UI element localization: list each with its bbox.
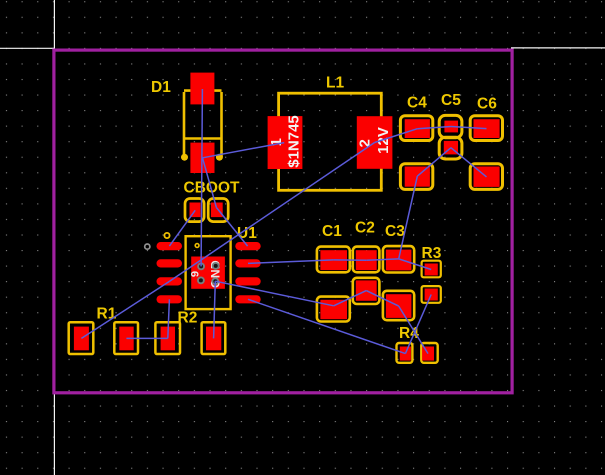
capacitor C2 top pad xyxy=(356,250,377,270)
ratsnest C4.2 to C3.1 xyxy=(399,176,418,259)
svg-text:$1N745: $1N745 xyxy=(286,115,303,168)
free via marker xyxy=(145,244,150,249)
svg-text:CBOOT: CBOOT xyxy=(184,180,241,197)
U1 pad 5 xyxy=(235,295,260,303)
ratsnest R1.2 to R2.1 xyxy=(126,337,167,339)
capacitor CBOOT left pad outline xyxy=(185,199,204,222)
ratsnest U1.3 to L1.2 xyxy=(169,143,374,282)
capacitor C6 bottom pad xyxy=(474,167,500,187)
capacitor C6 top pad xyxy=(474,119,500,138)
diode D1 silk dot left xyxy=(181,154,188,161)
capacitor C6 top pad outline xyxy=(470,116,502,141)
ratsnest R2.2 to via4 xyxy=(214,281,216,338)
ratsnest C2.1 to C3.1 xyxy=(366,259,398,260)
capacitor CBOOT right pad xyxy=(211,203,223,218)
via 2 (thermal TR) xyxy=(212,262,220,270)
board outline xyxy=(54,50,512,393)
inductor L1 pad 2 xyxy=(357,116,393,169)
U1 pad 4 xyxy=(157,295,183,303)
capacitor C2 top pad outline xyxy=(353,247,380,273)
ratsnest D1.1 to U1 via1 xyxy=(201,89,202,266)
inductor L1 pad 1 xyxy=(268,116,303,169)
U1 pin 1 marker ring xyxy=(164,233,169,238)
capacitor C5 bottom pad xyxy=(444,141,458,155)
ratsnest CBOOT.1 to U1.1 xyxy=(169,210,195,246)
capacitor C4 top pad xyxy=(405,119,430,138)
op-amp U1 body outline xyxy=(186,236,231,309)
svg-text:R3: R3 xyxy=(422,245,442,262)
capacitor C5 top pad xyxy=(444,121,458,133)
vertical axis line top segment xyxy=(53,0,55,50)
U1 pad 3 xyxy=(157,277,183,285)
diode D1 pad 2 (bottom) xyxy=(190,143,214,173)
ratsnest C2.2 to C3.2 xyxy=(366,291,398,307)
ratsnest C5.2 to C4.2 xyxy=(417,148,451,177)
ratsnest via4 to C1.2 xyxy=(215,281,333,306)
diode D1 silk dot right xyxy=(216,154,223,161)
resistor R2 pad 1 outline xyxy=(155,322,180,354)
ratsnest D1.2 to CBOOT.2 xyxy=(203,158,217,208)
svg-text:12V: 12V xyxy=(375,127,392,154)
via 1 (thermal TL) xyxy=(197,263,205,271)
U1 pad 7 xyxy=(235,259,260,267)
diode D1 silkscreen xyxy=(184,91,222,157)
capacitor C3 top pad outline xyxy=(383,246,414,272)
capacitor C1 bottom pad outline xyxy=(317,297,350,322)
ratsnest C3.2 to R4.2 xyxy=(399,306,428,354)
ratsnest CBOOT.2 to U1.8 xyxy=(216,208,247,247)
ratsnest U1.5 to R4.1 xyxy=(248,299,405,353)
capacitor C2 bottom pad xyxy=(356,280,377,300)
resistor R4 left pad xyxy=(400,347,411,361)
resistor R3 top pad xyxy=(425,264,438,276)
svg-text:C5: C5 xyxy=(441,92,461,109)
ratsnest D1.2 to L1.1 xyxy=(203,143,285,158)
U1 inner pin-1 dot xyxy=(195,244,199,248)
vertical axis line bottom segment xyxy=(53,393,55,475)
ratsnest L1.2 to C4.1 xyxy=(375,129,418,143)
U1 pad 8 xyxy=(235,242,260,250)
resistor R2 pad 2 outline xyxy=(202,322,226,354)
capacitor CBOOT left pad xyxy=(190,203,201,218)
svg-text:C2: C2 xyxy=(355,220,375,237)
resistor R3 bottom pad outline xyxy=(422,286,441,303)
capacitor C6 bottom pad outline xyxy=(470,164,502,190)
capacitor C5 top pad outline xyxy=(439,115,462,137)
svg-text:C4: C4 xyxy=(407,95,427,112)
resistor R1 pad 2 xyxy=(119,327,133,351)
svg-text:9: 9 xyxy=(190,271,202,277)
ratsnest R3.2 to R4.1 xyxy=(405,295,431,354)
resistor R4 right pad outline xyxy=(421,343,437,363)
resistor R1 pad 1 xyxy=(74,327,89,351)
ratsnest C5.2 to C6.2 xyxy=(451,148,487,177)
capacitor C1 top pad xyxy=(320,250,347,270)
resistor R2 pad 2 xyxy=(206,327,221,351)
ratsnest C5.1 to C6.1 xyxy=(451,127,487,129)
capacitor C1 bottom pad xyxy=(320,300,347,319)
ratsnest C4.1 to C5.1 xyxy=(417,127,451,129)
U1 pad 1 xyxy=(157,242,183,250)
svg-text:2: 2 xyxy=(357,139,374,147)
capacitor C4 top pad outline xyxy=(400,116,432,141)
U1 pad 6 xyxy=(235,277,260,285)
svg-text:D1: D1 xyxy=(151,79,171,96)
svg-text:R1: R1 xyxy=(97,306,117,323)
resistor R2 pad 1 xyxy=(161,327,175,351)
capacitor C3 top pad xyxy=(386,250,412,271)
svg-text:R2: R2 xyxy=(178,310,198,327)
capacitor C2 bottom pad outline xyxy=(353,278,380,304)
capacitor C3 bottom pad xyxy=(386,294,412,318)
capacitor C4 bottom pad xyxy=(405,167,430,187)
U1 pad 2 xyxy=(157,259,183,267)
ratsnest R1.1 to U1.3 xyxy=(81,281,169,338)
ratsnest U1.7 to C1.1 xyxy=(248,260,333,264)
ratsnest C3.1 to R3.1 xyxy=(399,259,432,270)
svg-text:C1: C1 xyxy=(322,223,342,240)
svg-text:C3: C3 xyxy=(385,223,405,240)
ratsnest C1.1 to C2.1 xyxy=(333,259,366,261)
resistor R3 bottom pad xyxy=(425,289,438,301)
resistor R4 right pad xyxy=(422,347,434,361)
svg-text:L1: L1 xyxy=(326,75,344,92)
capacitor C4 bottom pad outline xyxy=(400,164,432,190)
resistor R1 pad 2 outline xyxy=(114,322,138,354)
svg-text:C6: C6 xyxy=(477,96,497,113)
capacitor C3 bottom pad outline xyxy=(383,291,414,320)
capacitor C1 top pad outline xyxy=(317,247,350,273)
horizontal axis line left segment xyxy=(0,47,55,49)
via 4 (thermal BR) xyxy=(211,277,219,285)
ratsnest C2.2 to C1.2 xyxy=(334,291,367,306)
via 3 (thermal BL) xyxy=(197,277,205,285)
horizontal axis line right segment xyxy=(511,47,605,49)
resistor R3 top pad outline xyxy=(422,261,441,278)
capacitor CBOOT right pad outline xyxy=(208,199,228,222)
resistor R4 left pad outline xyxy=(397,343,413,363)
capacitor C5 bottom pad outline xyxy=(439,137,462,159)
inductor L1 silkscreen outline xyxy=(279,93,382,190)
resistor R1 pad 1 outline xyxy=(69,322,94,354)
U1 thermal pad 9 xyxy=(191,257,225,289)
ratsnest R2.1 to U1.4 xyxy=(168,299,170,338)
diode D1 pad 1 (top) xyxy=(190,73,214,105)
